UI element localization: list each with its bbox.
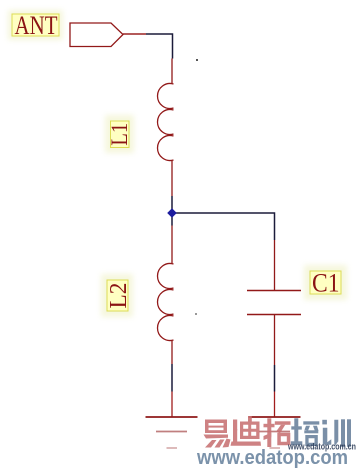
char xun — [322, 419, 351, 447]
capacitor C1 — [247, 240, 301, 365]
ground right — [249, 392, 301, 449]
port ANT pin stub — [123, 33, 146, 35]
wire net from ANT to L1 — [146, 34, 173, 59]
char yi — [204, 420, 231, 448]
port ANT symbol — [70, 23, 123, 47]
wire L2 to ground — [171, 364, 173, 392]
char di — [231, 416, 262, 446]
watermark fade overlay — [130, 423, 356, 468]
inductor L1 — [157, 59, 173, 197]
char tuo — [264, 418, 291, 447]
label L1 — [107, 121, 132, 148]
wire L1 to junction to L2 — [171, 196, 173, 226]
svg-text:L2: L2 — [106, 283, 132, 309]
label L2 — [106, 280, 132, 311]
svg-text:ANT: ANT — [15, 11, 58, 40]
wire C1 to ground — [274, 365, 276, 392]
wire junction to C1 — [172, 213, 275, 240]
label C1 — [310, 269, 341, 298]
ground left — [146, 392, 198, 449]
svg-text:L1: L1 — [107, 123, 132, 146]
port ANT label box — [12, 11, 59, 40]
junction node — [167, 208, 177, 218]
inductor L2 — [158, 226, 174, 365]
watermark logo text — [204, 416, 352, 448]
svg-text:C1: C1 — [312, 269, 340, 298]
char pei — [291, 418, 320, 446]
svg-text:www.edatop.com: www.edatop.com — [196, 447, 348, 468]
